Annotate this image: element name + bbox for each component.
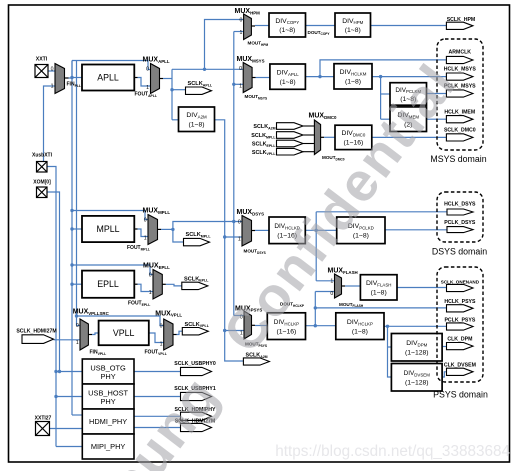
wire MOUT_DMC0 to DIV_DMC0 (324, 136, 335, 138)
wire DOUT_HCLKP (306, 325, 336, 327)
junction (232, 83, 235, 86)
wire into EPLL (72, 283, 82, 285)
divider DIV_HCLKD (269, 217, 305, 244)
junction (318, 75, 321, 78)
mux MUX_EPLL (153, 270, 162, 300)
svg-text:HCLK_PSYS: HCLK_PSYS (444, 299, 476, 305)
wire XXTI27 to HDMI_PHY (50, 428, 83, 430)
wire FOUT_MPLL to MUX_MPLL input1 (138, 229, 149, 237)
svg-text:CLK_DPM: CLK_DPM (447, 336, 472, 342)
wire MPLL bypass (72, 211, 148, 220)
wire ARMCLK (320, 60, 446, 77)
svg-text:SCLK_ONENAND: SCLK_ONENAND (441, 279, 480, 284)
wire SCLK_HDMIPHY (134, 415, 181, 417)
wire SCLK_USBPHY0 (134, 371, 181, 373)
wire XOM[0] to select trunk (47, 192, 60, 372)
svg-text:0: 0 (160, 324, 163, 330)
svg-text:1: 1 (76, 340, 79, 346)
wire PCLK_DSYS (385, 229, 447, 231)
svg-text:0: 0 (239, 66, 242, 72)
divider DIV_HCLKM (334, 64, 372, 89)
wire PCLK_MSYS (427, 93, 447, 95)
svg-text:XXTI27: XXTI27 (35, 416, 52, 422)
wire HCLK_IMEM (427, 118, 447, 120)
divider DIV_APLL (270, 64, 306, 89)
block MIPI_PHY (82, 434, 134, 459)
wire MOUT_PSYS to DIV_HCLKP (255, 325, 267, 327)
svg-text:0: 0 (51, 67, 54, 73)
wire MOUT_FLASH to DIV_FLASH (345, 285, 360, 287)
wire APLL bypass top (72, 61, 151, 70)
PLL MPLL (82, 216, 134, 242)
wire branch to DIV_PCLKM and DIV_MEM (380, 77, 382, 120)
wire XusbXTI to USB_OTG PHY (56, 371, 82, 373)
wire HCLK_MSYS (372, 76, 446, 78)
divider DIV_MEM (390, 107, 427, 132)
divider DIV_A2M (179, 107, 215, 132)
svg-text:0: 0 (330, 291, 333, 297)
wire EPLL bypass (72, 265, 153, 275)
net tag SCLK_EPLL into MUX_DMC0 (303, 143, 314, 145)
net tag SCLK_A2M into MUX_DMC0 (303, 125, 314, 127)
wire to SCLK_MPLL tag (173, 229, 184, 242)
svg-text:1: 1 (330, 279, 333, 285)
svg-text:0: 0 (144, 218, 147, 224)
svg-text:CLK_DVSEM: CLK_DVSEM (444, 363, 476, 369)
divider DIV_DPM (391, 334, 442, 362)
divider DIV_FLASH (360, 275, 397, 300)
junction (203, 68, 206, 71)
svg-text:XusbXTI: XusbXTI (32, 153, 53, 159)
wire DIV_APLL out to DIV_HCLKM (305, 76, 334, 78)
wire SCLK_A2M to MUX_PSYS input1 (225, 330, 244, 332)
wire SCLK_DMC0 (372, 136, 447, 138)
svg-text:XXTI: XXTI (36, 57, 48, 63)
svg-text:1: 1 (144, 236, 147, 242)
svg-text:0: 0 (76, 323, 79, 329)
junction (170, 88, 173, 91)
svg-text:1: 1 (149, 290, 152, 296)
junction (314, 306, 317, 309)
svg-text:DSYS domain: DSYS domain (432, 247, 487, 257)
svg-text:1: 1 (238, 237, 241, 243)
net tag SCLK_MPLL into MUX_DMC0 (303, 134, 314, 136)
svg-text:APLL: APLL (97, 72, 119, 82)
wire HCLK_DSYS riser (315, 212, 317, 281)
wire MOUT_DSYS to DIV_HCLKD (255, 229, 269, 231)
svg-text:(1~8): (1~8) (352, 328, 368, 335)
wire SCLK_VPLL (177, 331, 183, 334)
svg-text:1: 1 (51, 84, 54, 90)
divider DIV_DVSEM (391, 364, 442, 392)
divider DIV_HCLKP 1~16 (267, 313, 305, 340)
wire VPLL bypass (77, 316, 164, 326)
mux MUX_FINPLL (55, 64, 65, 94)
svg-text:1: 1 (239, 84, 242, 90)
wire XXTI to MUX_FINPLL input 0 (48, 70, 55, 72)
wire SCLK_HDMI27M to MUX_VPLLSRC input1 (54, 339, 81, 341)
wire SCLK_MPLL to MUX_PSYS input0 (234, 315, 244, 317)
svg-text:HDMI_PHY: HDMI_PHY (89, 417, 127, 426)
junction (70, 76, 73, 79)
wire MOUT_MPLL / SCLK_MPLL (161, 228, 173, 230)
wire SCLK_USBPHY1 (134, 396, 181, 398)
wire into DIV_A2M (172, 119, 179, 121)
junction (232, 220, 235, 223)
PLL APLL (82, 65, 134, 91)
svg-text:PCLK_DSYS: PCLK_DSYS (444, 220, 476, 226)
junction (58, 370, 61, 373)
wire HCLK_PSYS (315, 307, 446, 309)
wire DOUT_HCLKD to MUX_FLASH input1 (316, 280, 334, 282)
mux MUX_APLL (151, 64, 160, 94)
wire MUX_HPM input0 riser (205, 20, 244, 70)
wire SCLK_MPLL trunk (233, 32, 235, 316)
svg-text:(1~8): (1~8) (279, 27, 295, 34)
wire FIN_PLL trunk x=72 (69, 61, 73, 79)
svg-text:0: 0 (149, 273, 152, 279)
svg-text:HCLK_MSYS: HCLK_MSYS (444, 67, 477, 73)
wire branch to DIV_DPM and DIV_DVSEM (388, 326, 392, 377)
wire XusbXTI to MIPI_PHY (56, 446, 82, 448)
svg-text:PHY: PHY (100, 397, 115, 406)
svg-text:SCLK_DMC0: SCLK_DMC0 (444, 127, 476, 133)
svg-text:HCLK_DSYS: HCLK_DSYS (444, 202, 476, 208)
wire to SCLK_APLL tag (172, 89, 186, 91)
svg-text:1: 1 (160, 342, 163, 348)
domain box MSYS (437, 39, 483, 150)
svg-text:1: 1 (240, 30, 243, 36)
net tag SCLK_VPLL into MUX_DMC0 (303, 151, 314, 153)
divider DIV_HCLKP 1~8 (336, 313, 384, 340)
divider DIV_PCLKD (337, 217, 385, 244)
PLL EPLL (82, 271, 134, 298)
block USB_OTG (82, 359, 134, 384)
wire DOUT_HCLKD (305, 229, 336, 231)
wire PCLK_PSYS (384, 325, 447, 327)
wire SCLK_EPLL (166, 284, 182, 286)
wire SCLK_A2M trunk (215, 120, 244, 361)
svg-text:XOM[0]: XOM[0] (33, 180, 51, 186)
wire MOUT_HPM to DIV_COPY (255, 25, 269, 27)
wire FOUT_VPLL to MUX_VPLL input1 (149, 333, 164, 343)
block HDMI_PHY (82, 409, 134, 434)
svg-text:(1~8): (1~8) (371, 290, 387, 297)
svg-text:0: 0 (238, 220, 241, 226)
junction (223, 235, 226, 238)
svg-text:(1~8): (1~8) (188, 121, 204, 128)
junction (314, 324, 317, 327)
wire DOUT_HCLKP riser (314, 292, 316, 326)
svg-text:(1~128): (1~128) (405, 379, 429, 386)
svg-text:(1~8): (1~8) (345, 27, 361, 34)
domain box DSYS (437, 192, 483, 242)
wire CLK_DPM (442, 346, 446, 348)
wire SCLK_ONENAND (397, 287, 447, 289)
divider DIV_COPY (269, 13, 306, 37)
wire FOUT_APLL to MUX_APLL input1 (138, 78, 151, 87)
wire FIN trunk into MUX_VPLLSRC input0 (77, 325, 81, 327)
divider DIV_HPM (335, 13, 371, 37)
svg-text:MPLL: MPLL (97, 224, 120, 234)
svg-text:(1~8): (1~8) (280, 79, 296, 86)
svg-text:MSYS domain: MSYS domain (430, 154, 486, 164)
junction (54, 370, 57, 373)
wire DOUT_COPY (306, 25, 336, 27)
wire FOUT_EPLL to MUX_EPLL input1 (138, 284, 154, 291)
junction (70, 263, 73, 266)
wire MUX_FINPLL input1 from XusbXTI (44, 86, 56, 162)
svg-text:VPLL: VPLL (113, 328, 135, 338)
junction (171, 228, 174, 231)
divider DIV_PCLKM (390, 83, 427, 106)
junction (70, 209, 73, 212)
svg-text:1: 1 (146, 85, 149, 91)
junction (54, 395, 57, 398)
PLL VPLL (99, 321, 149, 346)
svg-text:(1~128): (1~128) (405, 349, 429, 356)
svg-text:PSYS domain: PSYS domain (433, 390, 488, 400)
svg-text:0: 0 (240, 18, 243, 24)
wire XusbXTI to USB_HOST PHY (56, 396, 82, 398)
junction (70, 283, 73, 286)
svg-text:EPLL: EPLL (97, 279, 119, 289)
junction (315, 229, 318, 232)
svg-text:0: 0 (146, 67, 149, 73)
wire into APLL (72, 77, 82, 79)
wire FIN trunk to HDMI_PHY (72, 414, 82, 416)
wire XusbXTI trunk down to USB PHYs (47, 167, 56, 447)
junction (70, 227, 73, 230)
junction (379, 75, 382, 78)
wire MOUT_MSYS to DIV_APLL (256, 77, 270, 79)
wire SCLK_HPM (371, 25, 447, 27)
svg-text:https://blog.csdn.net/qq_33883: https://blog.csdn.net/qq_33883684 (275, 443, 510, 460)
svg-text:SCLK_HDMI27M: SCLK_HDMI27M (16, 328, 56, 334)
junction (75, 314, 78, 317)
wire MOUT_APLL / SCLK_APLL (163, 78, 172, 80)
domain box PSYS (437, 267, 483, 382)
svg-text:PHY: PHY (100, 372, 115, 381)
wire DOUT_HCLKP to MUX_FLASH input0 (315, 291, 334, 293)
divider DIV_DMC0 (335, 125, 372, 149)
wire SCLK_HDMI27M (134, 427, 181, 429)
junction (223, 329, 226, 332)
block USB_HOST (82, 384, 134, 409)
mux MUX_MPLL (148, 215, 158, 245)
wire into MPLL (72, 228, 82, 230)
junction (386, 325, 389, 328)
wire CLK_DVSEM (442, 372, 446, 377)
wire FIN_PLL trunk x=76.5 (76, 61, 78, 326)
wire SCLK_A2M to MUX_DSYS input1 (225, 236, 242, 238)
wire FIN_VPLL to VPLL (92, 333, 99, 335)
svg-text:(1~8): (1~8) (345, 79, 361, 86)
svg-text:ARMCLK: ARMCLK (449, 50, 472, 56)
